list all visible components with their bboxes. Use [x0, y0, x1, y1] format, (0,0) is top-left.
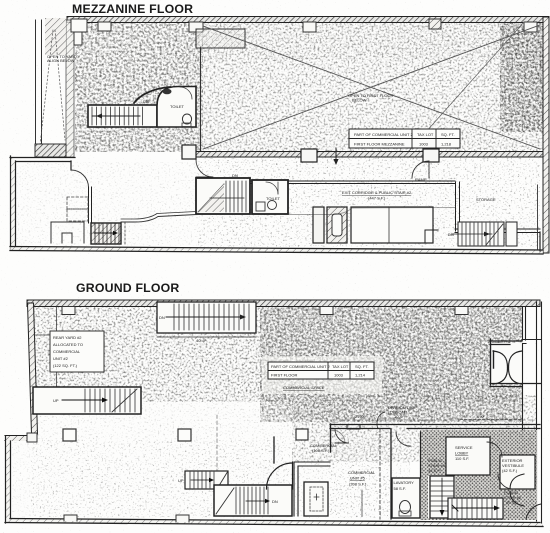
svg-text:PART OF COMMERCIAL UNIT 2: PART OF COMMERCIAL UNIT 2: [354, 132, 413, 137]
svg-text:DN: DN: [448, 232, 454, 237]
svg-text:10'-0": 10'-0": [394, 414, 405, 419]
bottom stair cutout: [448, 498, 503, 519]
svg-text:FIRST FLOOR: FIRST FLOOR: [271, 373, 297, 378]
alcove shape: [51, 222, 84, 243]
mezzanine bottom exterior wall: [10, 247, 543, 255]
west stair: [91, 223, 121, 244]
stair1 cutout: [428, 476, 455, 518]
pilaster white inset: [71, 19, 87, 32]
floor speckle mezzanine interior: [75, 22, 203, 152]
svg-text:SERVICE: SERVICE: [455, 445, 473, 450]
west room lower mezzanine: [10, 156, 196, 249]
lot strip dotted V lines: [40, 30, 53, 145]
room east wall: [89, 187, 92, 223]
svg-text:RAMP: RAMP: [415, 177, 427, 182]
svg-text:EXIT CORRIDOR & PUBLIC STAIR #: EXIT CORRIDOR & PUBLIC STAIR #2: [342, 190, 412, 195]
machine room rect: [351, 207, 438, 243]
east exterior wall ground: [537, 302, 542, 523]
division dashed line vertical: [379, 429, 381, 519]
top exterior wall band: [67, 17, 549, 23]
door jog: [70, 161, 72, 170]
service core hatched walls: [420, 430, 537, 520]
corridor shaft 1: [313, 207, 324, 243]
door arc west room: [71, 170, 89, 188]
svg-text:BELOW: BELOW: [352, 98, 367, 103]
mezzanine edge band: [196, 152, 543, 158]
open area notch: [196, 29, 245, 48]
ground floor speckle: [31, 307, 523, 402]
svg-text:LOBBY: LOBBY: [455, 451, 469, 456]
corridor south boundary: [288, 208, 455, 215]
toilet room mezzanine upper: [134, 87, 196, 128]
svg-text:DN: DN: [159, 315, 165, 320]
room cluster north wall: [330, 425, 540, 429]
east wall inner line lower: [537, 185, 539, 249]
storage stair: [448, 222, 504, 246]
elevator shaft: [327, 207, 347, 243]
column g2: [178, 429, 191, 441]
svg-text:TOILET: TOILET: [170, 104, 184, 109]
svg-text:ALIGN BELOW: ALIGN BELOW: [47, 58, 75, 63]
bottom exterior wall: [5, 519, 543, 527]
west party wall: [66, 20, 74, 157]
west lot-line strip: [35, 20, 37, 152]
svg-text:DN: DN: [232, 173, 238, 178]
column stub: [303, 22, 316, 32]
svg-text:PART OF COMMERCIAL UNIT 2: PART OF COMMERCIAL UNIT 2: [271, 364, 330, 369]
svg-text:TAX LOT: TAX LOT: [417, 132, 434, 137]
stub c: [455, 307, 468, 315]
east exterior wall: [543, 17, 549, 253]
svg-text:49 S.F.: 49 S.F.: [506, 500, 518, 505]
corner hatch block: [45, 18, 66, 55]
storage stair side room: [506, 222, 517, 246]
svg-text:UNIT #5: UNIT #5: [350, 476, 366, 481]
storage south wall: [455, 229, 540, 233]
central DN stair: [214, 485, 292, 516]
dimension dashed row: [333, 419, 535, 421]
svg-text:1,218: 1,218: [441, 142, 452, 147]
svg-text:UP: UP: [53, 398, 59, 403]
service doors: [487, 442, 502, 457]
lavatory room: [392, 432, 421, 518]
double door room right: [491, 343, 522, 384]
svg-text:DN: DN: [272, 499, 278, 504]
svg-text:(208 S.F.): (208 S.F.): [349, 482, 367, 487]
svg-text:COMMERCIAL: COMMERCIAL: [53, 349, 81, 354]
band column 2: [301, 149, 317, 162]
west step-out: [5, 436, 36, 441]
open area diagonal 3: [408, 22, 524, 152]
band column 3: [423, 149, 439, 162]
bottom stub 1: [64, 515, 77, 521]
dashed corridor line: [124, 222, 126, 246]
svg-text:21'-0": 21'-0": [355, 414, 366, 419]
svg-text:TOILET: TOILET: [266, 196, 280, 201]
dashed line right bay: [460, 419, 522, 421]
svg-text:TAX LOT: TAX LOT: [332, 364, 349, 369]
corridor east wall: [456, 182, 460, 231]
corridor north wall: [196, 181, 455, 184]
service lobby cutout: [446, 437, 490, 475]
svg-text:6'-0": 6'-0": [477, 414, 486, 419]
strip bottom hatched block: [35, 144, 66, 157]
svg-text:GROUND FLOOR: GROUND FLOOR: [76, 281, 180, 295]
elevator ground: [304, 482, 328, 516]
svg-text:COMMERCIAL SPACE: COMMERCIAL SPACE: [283, 385, 325, 390]
west exterior wall upper: [28, 303, 38, 434]
upper stair mezzanine: [88, 99, 157, 127]
column stub: [189, 22, 203, 32]
rear yard note box: [34, 331, 104, 372]
column g3: [296, 429, 308, 440]
ground top exterior wall band: [27, 300, 540, 307]
svg-text:(447 S.F.): (447 S.F.): [368, 196, 386, 201]
open area diagonal 2: [203, 25, 540, 149]
stub b: [320, 307, 333, 315]
svg-text:110 S.F.: 110 S.F.: [455, 456, 469, 461]
svg-text:ALLOCATED TO: ALLOCATED TO: [53, 342, 83, 347]
svg-text:SQ. FT.: SQ. FT.: [441, 132, 455, 137]
exit door bottom right: [526, 504, 541, 519]
central UP stair: [178, 471, 228, 489]
svg-text:(42 S.F.): (42 S.F.): [502, 468, 518, 473]
west exterior wall: [10, 156, 16, 249]
svg-text:FIRST FLOOR MEZZANINE: FIRST FLOOR MEZZANINE: [354, 142, 405, 147]
svg-text:1003: 1003: [334, 373, 344, 378]
svg-text:1,214: 1,214: [355, 373, 366, 378]
west exterior wall lower: [5, 436, 11, 523]
svg-text:STORAGE: STORAGE: [476, 197, 496, 202]
top exterior stair: [157, 302, 256, 343]
svg-text:REAR YARD #2: REAR YARD #2: [53, 335, 82, 340]
center walls: [294, 462, 330, 516]
bottom right corner join: [539, 232, 541, 251]
public stair 1: [428, 458, 454, 518]
svg-text:MEZZANINE FLOOR: MEZZANINE FLOOR: [72, 2, 193, 16]
mezzanine area table: [349, 129, 460, 148]
bottom stub 2: [176, 515, 189, 522]
lower toilet room: [252, 180, 288, 214]
svg-text:SQ. FT.: SQ. FT.: [355, 364, 369, 369]
svg-text:COMMERCIAL: COMMERCIAL: [348, 470, 376, 475]
commercial/lavatory divider wall: [390, 429, 392, 519]
corridor left curve: [121, 215, 196, 223]
column g1: [63, 429, 76, 441]
svg-text:UP: UP: [178, 478, 184, 483]
table leader arrow: [335, 148, 337, 160]
svg-text:1003: 1003: [419, 142, 429, 147]
band column 1: [182, 145, 196, 159]
rear yard boundary line: [56, 307, 58, 387]
ground area table: [262, 356, 382, 394]
west stair room ground: [33, 387, 141, 414]
svg-text:UNIT #2: UNIT #2: [53, 356, 69, 361]
leader vertical: [361, 490, 363, 516]
exterior vestibule cutout: [500, 455, 535, 489]
svg-text:40'-6": 40'-6": [196, 338, 207, 343]
open area diagonal 1: [203, 26, 540, 149]
small door top center: [332, 430, 345, 443]
door to stair room: [196, 160, 213, 177]
svg-text:46 S.F.: 46 S.F.: [428, 468, 440, 473]
lower stair room: [196, 173, 250, 214]
column stub: [429, 19, 441, 29]
svg-text:(108 S.F.): (108 S.F.): [312, 448, 330, 453]
open to below area outline: [200, 47, 202, 152]
bottom wide stair: [448, 498, 503, 519]
svg-text:(122 SQ. FT.): (122 SQ. FT.): [53, 363, 78, 368]
stub a: [62, 307, 75, 315]
corridor door arc center: [267, 463, 293, 489]
column stub corner: [524, 22, 537, 32]
commercial unit door: [335, 429, 349, 443]
dashed closet: [67, 197, 88, 209]
room north wall: [10, 158, 75, 162]
svg-text:DN: DN: [143, 99, 149, 104]
column stub: [98, 22, 111, 31]
svg-text:LAVATORY: LAVATORY: [394, 480, 415, 485]
svg-text:58 S.F.: 58 S.F.: [394, 486, 406, 491]
ramp door: [412, 161, 429, 178]
right bay wall upper: [522, 307, 541, 344]
